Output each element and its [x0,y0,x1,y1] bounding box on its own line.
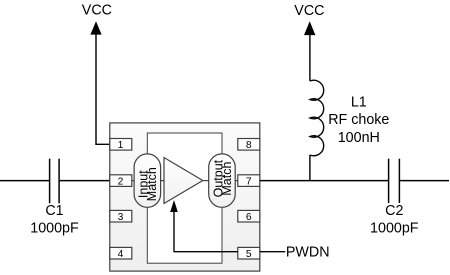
wire input left to C1 [0,180,50,182]
wire amplifier to output match [203,180,209,182]
svg-text:2: 2 [118,176,124,187]
svg-text:L1: L1 [351,95,367,111]
pin 4 [110,247,132,260]
input match block [134,154,161,207]
svg-text:4: 4 [118,249,124,260]
svg-text:3: 3 [118,212,124,223]
wire VCC right stem [309,34,311,81]
svg-text:7: 7 [246,176,252,187]
svg-text:8: 8 [246,140,252,151]
op-amp IC U1 body [110,123,260,271]
svg-text:PWDN: PWDN [286,245,330,261]
arrow into amplifier [170,200,178,212]
amplifier triangle [164,158,203,204]
power arrow VCC left [90,21,101,34]
pin 3 [110,210,132,223]
wire C2 to output right [399,180,449,182]
svg-text:5: 5 [246,249,252,260]
svg-text:1: 1 [118,140,124,151]
svg-text:1000pF: 1000pF [30,221,79,237]
inner boundary rect [147,133,222,263]
pin 1 [110,139,132,152]
svg-text:100nH: 100nH [338,130,380,146]
wire pin7 to C2 [260,180,389,182]
pin 7 [238,175,260,188]
pin 6 [238,210,260,223]
wire C1 to pin 2 [59,180,110,182]
svg-text:RF choke: RF choke [328,112,389,128]
pin 2 [110,175,132,188]
pin 5 [238,247,260,260]
svg-text:Match: Match [220,162,234,196]
svg-text:VCC: VCC [82,3,112,19]
svg-text:Match: Match [145,167,159,201]
wire pin5 to PWDN label [260,251,286,253]
svg-text:C1: C1 [45,203,63,219]
wire pin2 to input match [132,180,134,182]
svg-text:C2: C2 [385,203,403,219]
wire input match to amplifier [161,180,164,182]
svg-text:1000pF: 1000pF [370,221,419,237]
wire L1 to output line [309,155,311,181]
svg-text:VCC: VCC [294,3,324,19]
wire PWDN pin5 to amplifier [174,212,238,252]
pin 8 [238,139,260,152]
svg-text:6: 6 [246,212,252,223]
wire output match to pin 7 [235,180,238,182]
output match block [209,154,236,207]
inductor L1 coil [310,80,324,156]
capacitor C1 [50,159,60,204]
capacitor C2 [389,159,400,203]
power arrow VCC right [304,21,315,35]
wire VCC left stem to pin 1 [96,34,110,145]
